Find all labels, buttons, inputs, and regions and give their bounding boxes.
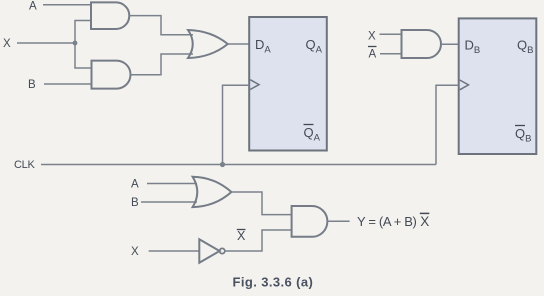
node X1 junction bbox=[73, 41, 78, 46]
clock input chevron U1 bbox=[250, 80, 259, 90]
svg-text:X: X bbox=[131, 246, 139, 258]
overbar of X-bar bbox=[237, 229, 246, 231]
svg-text:A: A bbox=[29, 1, 37, 13]
AND gate G1 bbox=[91, 2, 129, 29]
svg-text:B: B bbox=[28, 79, 36, 91]
D flip-flop U2 body bbox=[459, 18, 537, 154]
inverter bubble G7 bbox=[220, 248, 225, 253]
svg-text:X: X bbox=[420, 214, 429, 229]
wire B to G5 bbox=[141, 201, 197, 203]
D flip-flop U1 body bbox=[249, 17, 327, 151]
wire G1 output to G3 bbox=[129, 16, 193, 35]
svg-text:X: X bbox=[368, 31, 376, 43]
clock input chevron U2 bbox=[460, 80, 469, 90]
AND gate G6 bbox=[292, 206, 328, 237]
CLK junction node bbox=[220, 162, 225, 167]
NOT gate G7 bbox=[199, 239, 219, 263]
overbar of QB-bar bbox=[515, 125, 525, 127]
overbar of X in output label bbox=[420, 212, 430, 214]
svg-text:X: X bbox=[3, 38, 11, 50]
wire G2 output to G3 bbox=[131, 54, 194, 75]
svg-text:Y = (A + B): Y = (A + B) bbox=[357, 214, 417, 229]
wire CLK junction to U1 clock bbox=[223, 85, 250, 164]
wire G3 output to DA pin bbox=[228, 43, 249, 45]
wire node X1 down to G2 bbox=[75, 43, 92, 68]
svg-text:X: X bbox=[237, 229, 246, 243]
overbar of QA-bar bbox=[304, 124, 314, 126]
wire X to G4 bbox=[380, 33, 402, 35]
svg-text:A: A bbox=[369, 49, 377, 61]
OR gate G5 bbox=[193, 177, 232, 207]
AND gate G4 bbox=[402, 30, 442, 58]
wire A to G1 bbox=[43, 4, 91, 6]
wire G4 output to DB pin bbox=[441, 43, 459, 45]
wire X to node X1 bbox=[17, 42, 75, 44]
wire G6 output to Y bbox=[327, 220, 349, 222]
wire A to G5 bbox=[147, 183, 197, 185]
wire X to G7 bbox=[149, 250, 200, 252]
OR gate G3 bbox=[188, 30, 228, 58]
wire G7 output to G6 bbox=[225, 230, 292, 251]
overbar of A-bar bbox=[368, 46, 377, 48]
AND gate G2 bbox=[92, 61, 131, 89]
wire node X1 up to G1 bbox=[75, 21, 91, 44]
wire CLK to U2 clock bbox=[436, 85, 459, 164]
wire B to G2 bbox=[44, 83, 92, 85]
wire G5 output to G6 bbox=[231, 192, 291, 215]
svg-text:B: B bbox=[131, 197, 139, 209]
CLK wire bbox=[41, 164, 436, 166]
svg-text:Fig. 3.3.6 (a): Fig. 3.3.6 (a) bbox=[233, 275, 314, 290]
wire A-bar to G4 bbox=[380, 53, 402, 55]
svg-text:A: A bbox=[131, 179, 139, 191]
svg-text:CLK: CLK bbox=[14, 159, 35, 171]
